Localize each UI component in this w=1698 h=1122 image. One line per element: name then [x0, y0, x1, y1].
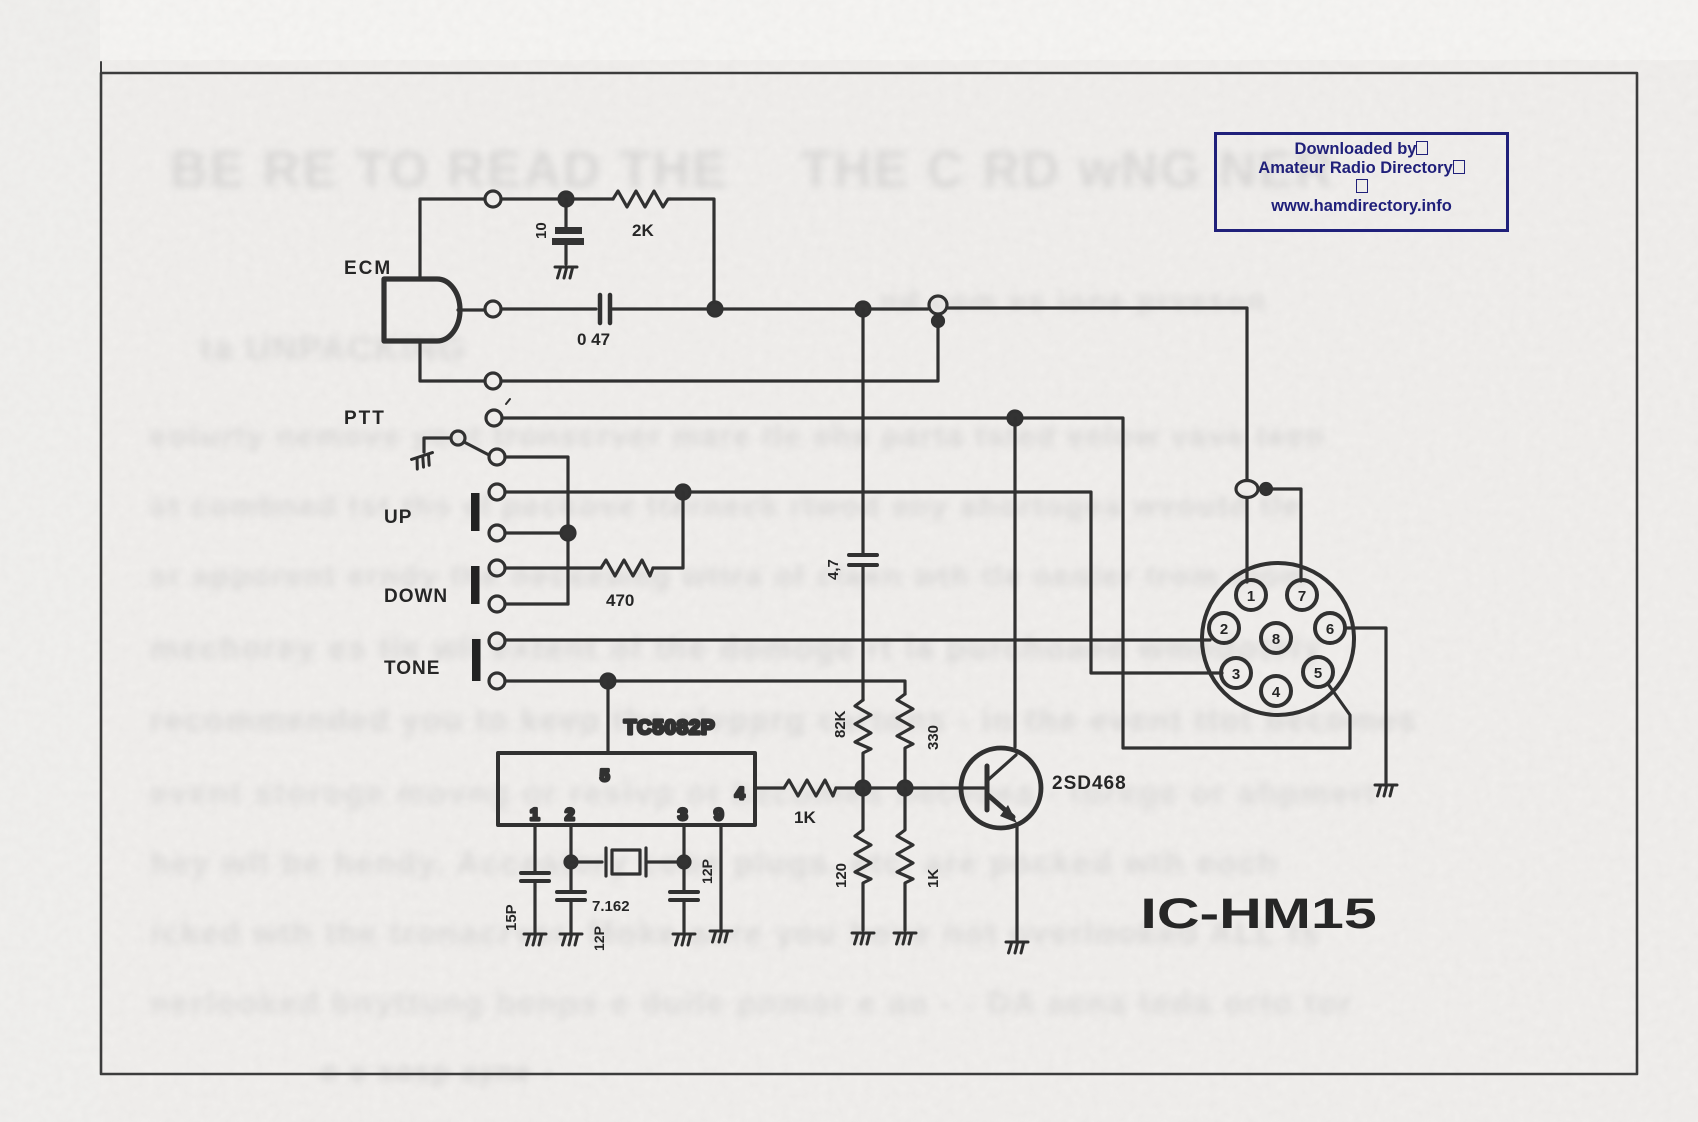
wire TONE rail to pin2: [505, 638, 1210, 641]
svg-text:15P: 15P: [503, 904, 520, 931]
node pin3: [678, 856, 690, 868]
node PTT: [1008, 411, 1022, 425]
button TONE bar: [472, 639, 481, 681]
svg-text:TONE: TONE: [384, 658, 440, 679]
capacitor 10: [564, 199, 567, 264]
svg-text:3: 3: [678, 805, 687, 824]
resistor 82K: [855, 700, 871, 788]
svg-text:4: 4: [1272, 684, 1281, 701]
wire PTT rail: [502, 418, 1350, 748]
capacitor 15P: [521, 873, 549, 881]
svg-text:12P: 12P: [699, 859, 715, 884]
svg-text:120: 120: [833, 863, 850, 888]
pin 1: [1236, 580, 1266, 610]
button DOWN bar: [471, 566, 480, 604]
pin 4: [1261, 676, 1291, 706]
wire bottom rail to shield: [501, 321, 938, 381]
terminal DOWN2: [489, 596, 505, 612]
ghost bleed-through text: [170, 140, 729, 200]
node plug: [1261, 484, 1272, 495]
ground 12Pa: [560, 934, 582, 945]
terminal PTT2: [489, 449, 505, 465]
node pin2: [565, 856, 577, 868]
wire 470 up to UP node: [653, 492, 683, 568]
wire pin2: [569, 825, 572, 890]
ground pin9: [710, 931, 732, 942]
node shield: [933, 316, 944, 327]
capacitor 12P b: [670, 892, 698, 900]
wire 4.7 chain: [861, 309, 864, 700]
wire UP rail: [505, 492, 1222, 673]
svg-text:4: 4: [735, 784, 745, 803]
wire mid rail: [501, 307, 596, 310]
wire emitter gnd: [1015, 826, 1018, 940]
svg-text:12P: 12P: [591, 926, 607, 951]
pin 7: [1287, 580, 1317, 610]
collector stroke: [988, 755, 1016, 780]
node mid B: [856, 302, 870, 316]
wire pin1: [533, 825, 536, 871]
node R82K: [856, 781, 870, 795]
wire PTT2 to bus: [505, 457, 568, 604]
pin digits: [1220, 588, 1334, 701]
wire PTT node to collector: [1013, 418, 1016, 747]
node UP2 bus: [561, 526, 575, 540]
crystal 7.162: [571, 848, 684, 876]
terminal PTT: [486, 410, 502, 426]
emitter stroke: [988, 795, 1013, 817]
wire DOWN1: [505, 566, 601, 569]
IC TC5082P box: [498, 753, 755, 825]
wire 2K to corner down: [670, 199, 714, 309]
base bar: [985, 766, 990, 810]
wire 1K to base: [836, 786, 984, 789]
svg-text:7: 7: [1298, 588, 1306, 605]
terminal plug ellipse: [1236, 481, 1258, 498]
svg-text:3: 3: [1232, 666, 1240, 683]
switch PTT: [451, 431, 465, 445]
frame corner tick: [100, 62, 102, 73]
wire DOWN2: [505, 602, 568, 605]
blue download box: [1214, 132, 1509, 232]
emitter arrow: [1000, 805, 1017, 823]
node TONE2: [601, 674, 615, 688]
wire top rail: [501, 197, 613, 200]
svg-text:7.162: 7.162: [592, 898, 630, 915]
wire ECM bottom loop: [420, 341, 485, 381]
button UP bar: [471, 493, 480, 531]
svg-text:TC5082P: TC5082P: [624, 717, 716, 739]
svg-text:2SD468: 2SD468: [1052, 773, 1127, 794]
svg-text:0 47: 0 47: [577, 330, 610, 349]
wire pin6 to gnd: [1345, 628, 1386, 783]
svg-text:1K: 1K: [794, 808, 816, 827]
svg-text:1: 1: [530, 805, 539, 824]
wire ECM out to terminal: [458, 308, 485, 311]
resistor 120: [855, 788, 871, 930]
wire pin4: [755, 786, 784, 789]
ECM microphone body: [384, 279, 460, 341]
ground pin6: [1375, 785, 1397, 796]
tick: [506, 399, 510, 404]
ground 12Pb: [673, 934, 695, 945]
ground 120: [852, 933, 874, 944]
pin 5: [1303, 657, 1333, 687]
wire 15P gnd: [533, 883, 536, 932]
svg-text:5: 5: [1314, 665, 1322, 682]
terminal TONE2: [489, 673, 505, 689]
svg-text:330: 330: [925, 725, 942, 750]
svg-text:1K: 1K: [925, 869, 942, 888]
capacitor 0.47: [600, 295, 610, 323]
svg-text:8: 8: [1272, 631, 1280, 648]
wire TONE2 rail: [505, 681, 905, 692]
terminal bottom: [485, 373, 501, 389]
wire node to IC pin5: [606, 681, 609, 753]
wire plug to pin7: [1266, 489, 1301, 581]
resistor 2K: [613, 191, 670, 207]
pin 6: [1315, 613, 1345, 643]
resistor 1K: [784, 780, 836, 796]
connector body: [1202, 563, 1354, 715]
node mid A: [708, 302, 722, 316]
terminal shield circle: [929, 296, 947, 314]
node UP: [676, 485, 690, 499]
terminal mid: [485, 301, 501, 317]
wire plug to pin 1: [1245, 498, 1248, 582]
capacitor 12P a: [557, 892, 585, 900]
svg-text:PTT: PTT: [344, 408, 386, 429]
svg-text:1: 1: [1247, 588, 1255, 605]
wire mid to connector corner: [948, 308, 1247, 479]
resistor 1K emitter: [897, 788, 913, 930]
ground: [555, 267, 577, 278]
svg-text:10: 10: [533, 222, 550, 239]
terminal DOWN1: [489, 560, 505, 576]
svg-text:9: 9: [714, 805, 723, 824]
svg-text:6: 6: [1326, 621, 1334, 638]
svg-text:2: 2: [565, 805, 574, 824]
wire ECM top to top rail: [420, 199, 485, 279]
node R330: [898, 781, 912, 795]
resistor 470: [601, 560, 653, 576]
wire UP2: [505, 531, 568, 534]
svg-text:UP: UP: [384, 507, 412, 528]
wire 12Pa gnd: [569, 902, 572, 932]
pin 3: [1221, 658, 1251, 688]
ground 1K: [894, 933, 916, 944]
ground emitter: [1006, 942, 1028, 953]
svg-text:IC-HM15: IC-HM15: [1140, 889, 1376, 937]
pin 2: [1209, 613, 1239, 643]
pin 8: [1261, 623, 1291, 653]
paper background shading: [0, 0, 1698, 60]
wire pin9: [719, 825, 722, 929]
svg-text:ECM: ECM: [344, 258, 392, 279]
svg-text:5: 5: [600, 766, 609, 785]
svg-text:2K: 2K: [632, 221, 654, 240]
resistor 330: [897, 694, 913, 788]
svg-text:82K: 82K: [832, 710, 849, 738]
svg-text:DOWN: DOWN: [384, 586, 448, 607]
node top junction: [559, 192, 573, 206]
svg-text:4,7: 4,7: [825, 559, 842, 580]
transistor 2SD468: [961, 748, 1041, 828]
wire pin3: [682, 825, 685, 890]
terminal UP1: [489, 484, 505, 500]
terminal top: [485, 191, 501, 207]
ground 15P: [524, 934, 546, 945]
wire 12Pb gnd: [682, 902, 685, 932]
svg-text:470: 470: [606, 591, 634, 610]
capacitor 4.7: [849, 555, 877, 565]
terminal TONE1: [489, 633, 505, 649]
wire mid rail right: [612, 307, 928, 310]
terminal UP2: [489, 525, 505, 541]
wire 330 chain: [903, 692, 906, 694]
svg-text:2: 2: [1220, 621, 1228, 638]
